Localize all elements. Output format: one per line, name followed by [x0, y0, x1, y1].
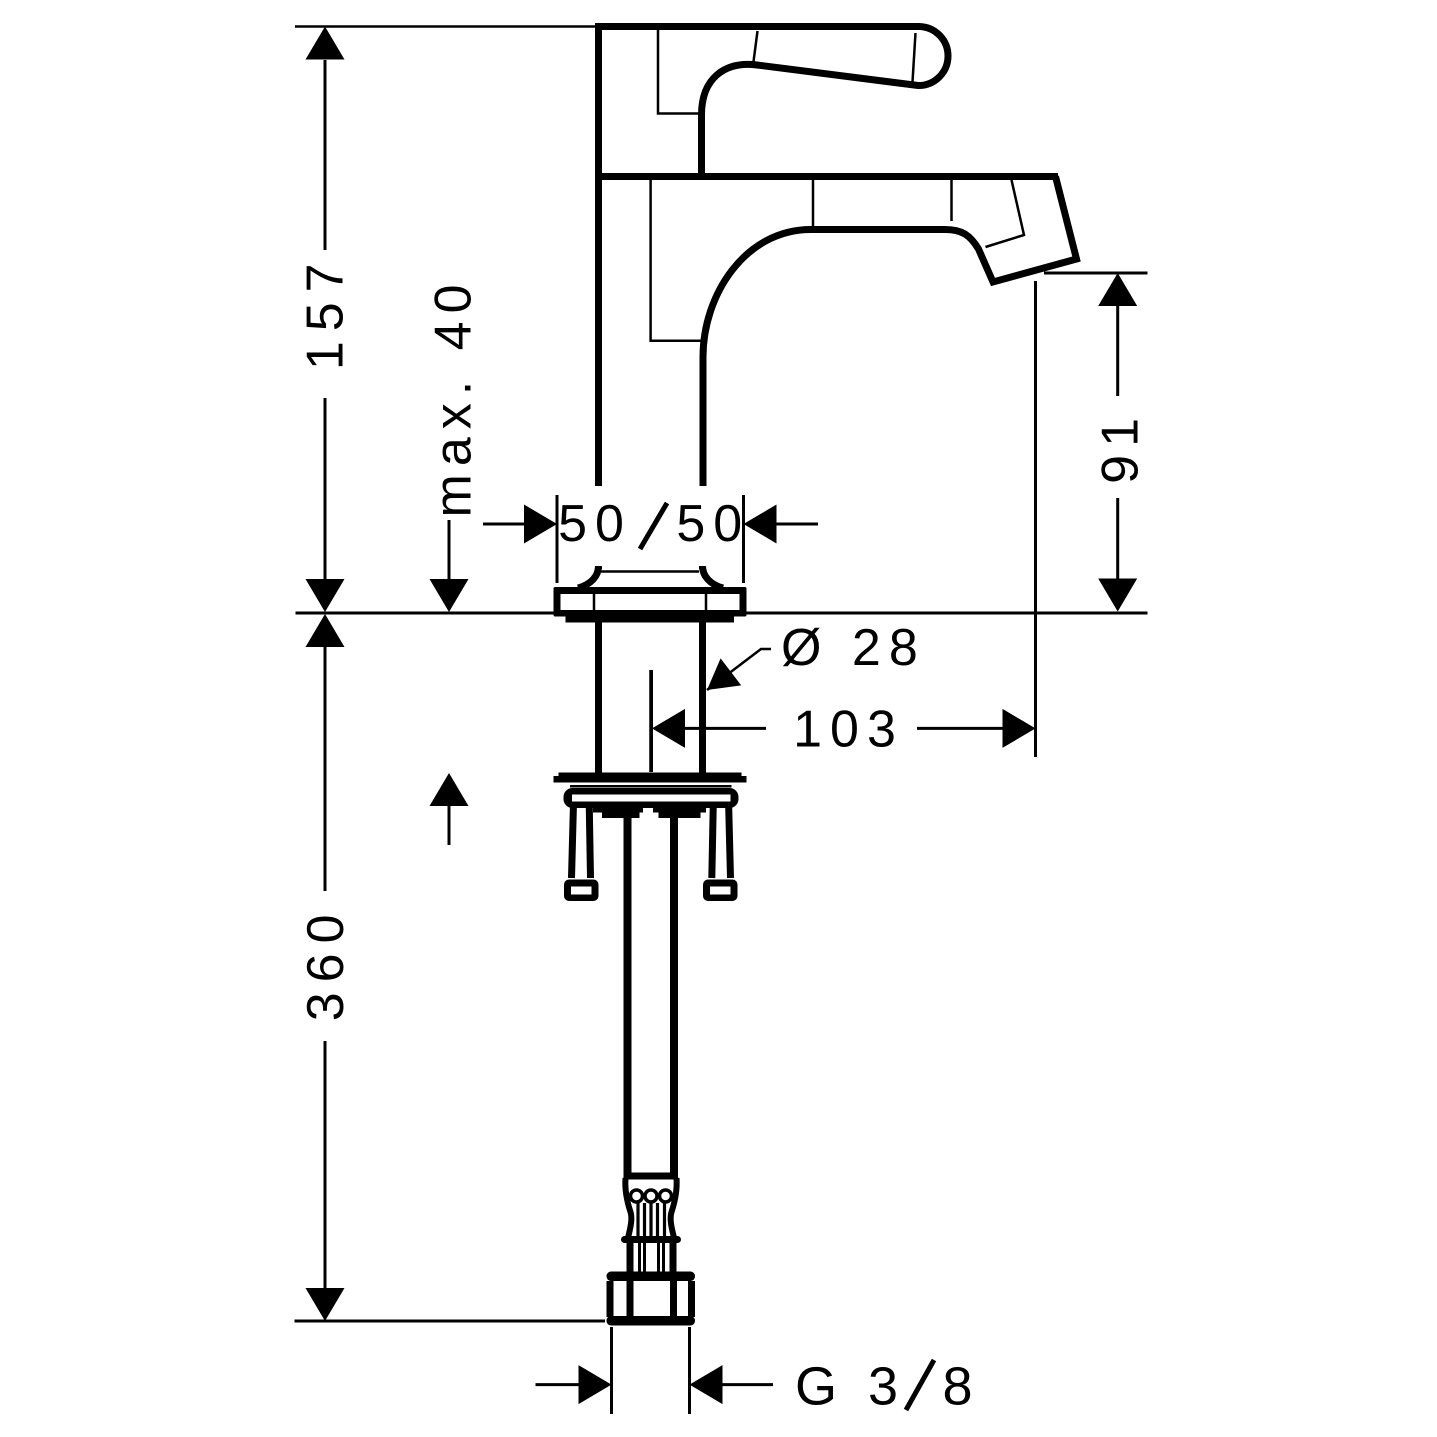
- svg-text:360: 360: [297, 905, 355, 1022]
- svg-text:50: 50: [558, 495, 632, 553]
- svg-text:Ø 28: Ø 28: [781, 619, 926, 677]
- svg-text:G 3: G 3: [795, 1357, 906, 1417]
- svg-text:8: 8: [943, 1357, 981, 1417]
- svg-text:91: 91: [1092, 410, 1150, 484]
- svg-text:157: 157: [297, 253, 355, 370]
- svg-text:max. 40: max. 40: [425, 277, 483, 518]
- svg-text:103: 103: [793, 701, 904, 759]
- svg-text:50: 50: [676, 495, 750, 553]
